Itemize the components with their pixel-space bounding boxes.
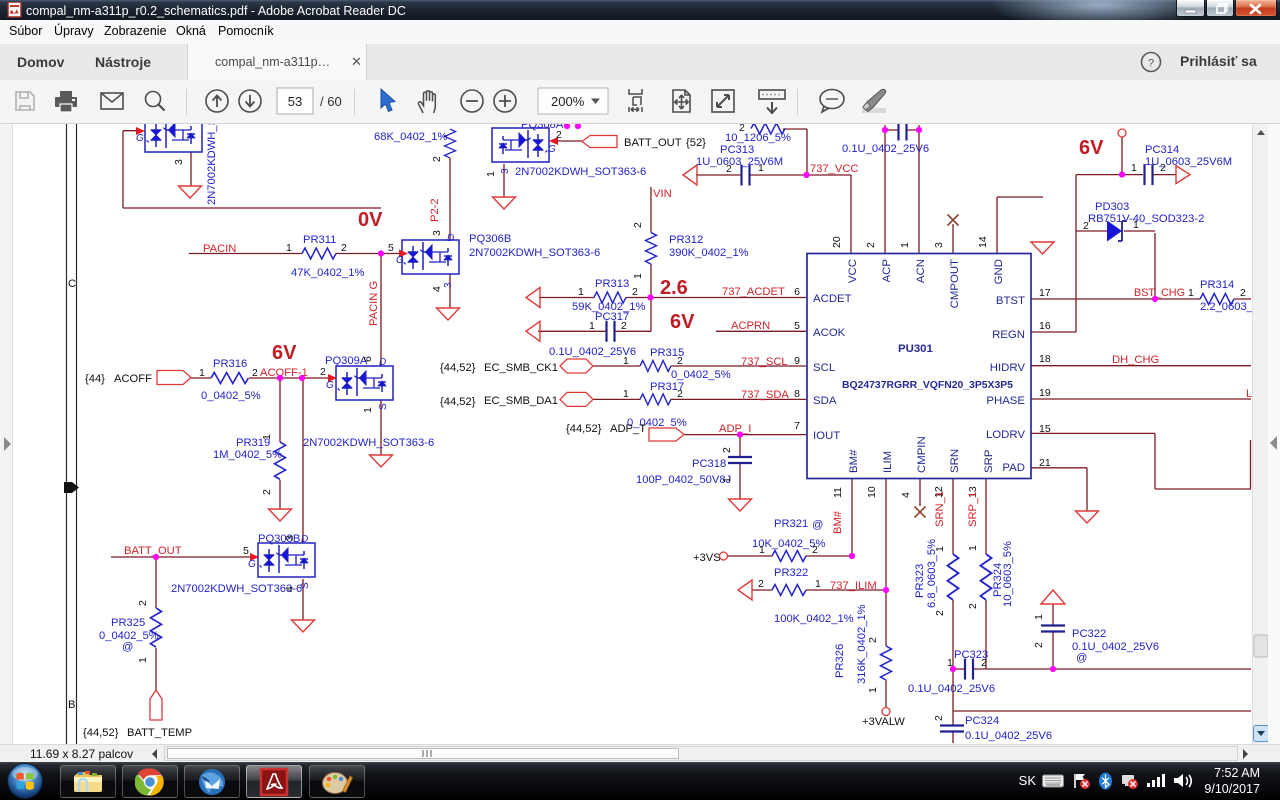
- svg-text:ADP_I: ADP_I: [719, 423, 751, 435]
- op-amp/IC U PU301 BQ24737: [807, 254, 1031, 479]
- svg-text:SRP: SRP: [983, 450, 995, 473]
- svg-text:16: 16: [1039, 320, 1051, 332]
- svg-text:19: 19: [1039, 387, 1051, 399]
- svg-text:REGN: REGN: [992, 329, 1025, 341]
- svg-text:2N7002KDWH_SOT363-6: 2N7002KDWH_SOT363-6: [171, 583, 302, 595]
- svg-text:2: 2: [252, 367, 258, 379]
- resistor PR325: [151, 608, 162, 647]
- svg-text:2: 2: [1083, 220, 1089, 232]
- wire net ADP_I: [684, 435, 806, 457]
- svg-text:ADP_T: ADP_T: [610, 423, 646, 435]
- svg-text:CMPOUT: CMPOUT: [949, 259, 961, 308]
- svg-text:D: D: [379, 357, 386, 368]
- svg-text:1: 1: [934, 546, 946, 552]
- svg-text:2: 2: [739, 124, 745, 134]
- svg-text:3: 3: [173, 159, 185, 165]
- svg-text:1U_0603_25V6M: 1U_0603_25V6M: [696, 156, 783, 168]
- capacitor PC317: [607, 321, 615, 342]
- wire net BATT_OUT: [111, 556, 252, 558]
- svg-text:1: 1: [1188, 287, 1194, 299]
- capacitor PC313: [683, 165, 697, 185]
- capacitor PC324: [940, 726, 964, 732]
- frame arrow marker: [64, 482, 79, 493]
- svg-text:47K_0402_1%: 47K_0402_1%: [291, 267, 364, 279]
- wire net ACN top: [906, 125, 920, 254]
- svg-text:PR314: PR314: [1200, 279, 1234, 291]
- wire net BST_CHG: [1031, 298, 1251, 300]
- capacitor top (0.1U): [899, 120, 907, 141]
- svg-text:3: 3: [443, 282, 454, 288]
- resistor 10_1206_5% (partial at top): [751, 123, 785, 134]
- svg-text:2: 2: [677, 388, 683, 400]
- svg-text:2: 2: [1033, 642, 1045, 648]
- svg-text:RB751V-40_SOD323-2: RB751V-40_SOD323-2: [1088, 213, 1204, 225]
- schematic frame border lines: [67, 124, 77, 744]
- svg-text:SCL: SCL: [813, 362, 835, 374]
- svg-text:2.6: 2.6: [660, 277, 688, 299]
- svg-text:2: 2: [1160, 162, 1166, 174]
- svg-text:1: 1: [721, 477, 733, 483]
- svg-text:1: 1: [199, 367, 205, 379]
- svg-text:PD303: PD303: [1095, 201, 1129, 213]
- junction ILIM: [883, 587, 889, 593]
- svg-text:C: C: [68, 278, 76, 290]
- svg-text:BST_CHG: BST_CHG: [1134, 287, 1185, 299]
- svg-text:1: 1: [261, 434, 273, 440]
- svg-text:2: 2: [621, 320, 627, 332]
- svg-text:1: 1: [137, 657, 149, 663]
- wire net ACPRN: [538, 330, 806, 332]
- svg-text:6V: 6V: [1079, 137, 1104, 159]
- svg-text:2: 2: [933, 715, 945, 721]
- svg-text:PAD: PAD: [1002, 462, 1025, 474]
- svg-text:10_0603_5%: 10_0603_5%: [1002, 541, 1014, 607]
- wire PR326 to +3VALW: [885, 680, 887, 708]
- svg-text:?: ?: [1148, 58, 1154, 70]
- wire PQ306A source to ground: [190, 152, 192, 186]
- svg-text:11: 11: [832, 487, 844, 498]
- svg-text:200%: 200%: [551, 94, 585, 109]
- svg-text:P2-2: P2-2: [429, 198, 441, 222]
- svg-text:2: 2: [1240, 287, 1246, 299]
- wire +3VS to PR321: [727, 555, 772, 557]
- svg-text:2: 2: [758, 578, 764, 590]
- wire net PACIN: [189, 253, 399, 255]
- capacitor PC322: [1041, 626, 1065, 632]
- resistor PR316: [211, 373, 248, 384]
- wire PC322 leads: [1052, 604, 1054, 669]
- svg-text:0_0402_5%: 0_0402_5%: [671, 369, 731, 381]
- port arrow (PR313): [526, 288, 540, 308]
- svg-text:BQ24737RGRR_VQFN20_3P5X3P5: BQ24737RGRR_VQFN20_3P5X3P5: [842, 380, 1013, 391]
- svg-text:PHASE: PHASE: [986, 395, 1025, 407]
- svg-text:G: G: [248, 559, 256, 570]
- svg-text:@: @: [122, 641, 133, 653]
- wire PR319 to ground: [279, 480, 281, 509]
- svg-text:@: @: [812, 519, 823, 531]
- ground (PQ309A): [370, 455, 393, 467]
- wire net ACOFF: [191, 377, 211, 379]
- capacitor PC314: [1145, 164, 1153, 185]
- svg-text:ACDET: ACDET: [813, 293, 852, 305]
- svg-text:10_1206_5%: 10_1206_5%: [725, 132, 791, 144]
- svg-text:ACN: ACN: [915, 259, 927, 283]
- svg-text:IOUT: IOUT: [813, 430, 840, 442]
- wire net LODRV: [1031, 433, 1251, 489]
- svg-text:8: 8: [794, 388, 800, 400]
- svg-text:ACOFF: ACOFF: [114, 373, 152, 385]
- svg-text:1: 1: [815, 578, 821, 590]
- svg-text:53: 53: [288, 94, 302, 109]
- svg-text:SDA: SDA: [813, 395, 837, 407]
- svg-text:ACP: ACP: [881, 259, 893, 282]
- wire PR325 to BATT_TEMP: [155, 648, 157, 690]
- power arrow (PC322): [1041, 590, 1065, 604]
- svg-text:B: B: [68, 699, 75, 711]
- svg-text:0.1U_0402_25V6: 0.1U_0402_25V6: [908, 683, 995, 695]
- wire net 737_VCC: [696, 129, 851, 254]
- wire ACOFF-1 to PQ308B drain: [302, 378, 304, 543]
- svg-text:737_ACDET: 737_ACDET: [722, 286, 785, 298]
- wire net ACOFF-1: [249, 377, 333, 379]
- svg-text:18: 18: [1039, 353, 1051, 365]
- junctions ACOFF-1: [277, 375, 283, 381]
- svg-text:G: G: [548, 144, 556, 155]
- svg-text:0.1U_0402_25V6: 0.1U_0402_25V6: [965, 730, 1052, 742]
- transistor PQ306A: [145, 118, 202, 152]
- ground (PR319): [269, 509, 292, 521]
- svg-text:21: 21: [1039, 457, 1051, 469]
- svg-text:BTST: BTST: [996, 295, 1025, 307]
- wire net P2-2: [449, 158, 451, 240]
- svg-text:4: 4: [284, 586, 296, 592]
- svg-text:1: 1: [578, 286, 584, 298]
- svg-text:{44,52}: {44,52}: [566, 423, 602, 435]
- svg-text:2: 2: [261, 489, 273, 495]
- wire net PHASE: [1031, 398, 1251, 400]
- svg-text:DH_CHG: DH_CHG: [1112, 354, 1159, 366]
- svg-text:{44,52}: {44,52}: [83, 727, 119, 739]
- power node circle: [1118, 129, 1126, 137]
- svg-text:1: 1: [362, 407, 374, 413]
- wire net 6V/REGN: [1031, 137, 1176, 332]
- svg-text:1M_0402_5%: 1M_0402_5%: [213, 449, 282, 461]
- wire PAD to ground: [1031, 468, 1087, 511]
- ground (PQ306A source): [179, 186, 202, 198]
- svg-text:1U_0603_25V6M: 1U_0603_25V6M: [1145, 156, 1232, 168]
- capacitor PC323: [965, 659, 973, 680]
- svg-text:PR326: PR326: [834, 644, 846, 678]
- svg-text:{44,52}: {44,52}: [440, 396, 476, 408]
- svg-text:0V: 0V: [358, 209, 383, 231]
- svg-text:2: 2: [632, 222, 644, 228]
- svg-text:737_VCC: 737_VCC: [810, 163, 859, 175]
- svg-text:4: 4: [900, 492, 912, 498]
- svg-text:/ 60: / 60: [320, 94, 342, 109]
- wire net 737_SCL: [593, 365, 806, 367]
- svg-text:6V: 6V: [670, 311, 695, 333]
- svg-text:100K_0402_1%: 100K_0402_1%: [774, 613, 854, 625]
- svg-text:VCC: VCC: [847, 259, 859, 283]
- svg-text:2N7002KDWH_SOT363-6: 2N7002KDWH_SOT363-6: [303, 437, 434, 449]
- svg-text:2: 2: [726, 163, 732, 175]
- svg-text:ACOK: ACOK: [813, 327, 846, 339]
- svg-text:ACPRN: ACPRN: [731, 320, 770, 332]
- no-connect X pin3: [948, 215, 959, 226]
- svg-text:2: 2: [812, 544, 818, 556]
- svg-text:1: 1: [623, 355, 629, 367]
- svg-text:PC313: PC313: [720, 144, 754, 156]
- port arrow (PC317): [526, 321, 540, 341]
- junction 737_VCC: [803, 172, 809, 178]
- svg-text:PR325: PR325: [111, 617, 145, 629]
- svg-text:@: @: [1076, 652, 1087, 664]
- svg-text:3: 3: [284, 535, 296, 541]
- svg-text:PACIN: PACIN: [203, 243, 236, 255]
- wire CMPOUT stub: [952, 224, 954, 254]
- ground (PQ308A): [493, 197, 516, 209]
- svg-text:PACIN G: PACIN G: [368, 281, 380, 326]
- wire bottom bus wire: [953, 668, 1251, 670]
- wire net 0V loop: [123, 131, 381, 208]
- junction BST_CHG: [1152, 296, 1158, 302]
- svg-text:SRP_1: SRP_1: [967, 492, 979, 527]
- transistor PQ308B: [258, 543, 315, 577]
- wire bottom bus wire 2: [953, 710, 1251, 712]
- svg-text:PR316: PR316: [213, 358, 247, 370]
- svg-text:1: 1: [485, 171, 497, 177]
- svg-text:ILIM: ILIM: [882, 451, 894, 473]
- wire net 737_ACDET: [539, 297, 806, 299]
- svg-text:1: 1: [589, 320, 595, 332]
- wire net VIN: [650, 187, 652, 233]
- svg-text:PR323: PR323: [914, 564, 926, 598]
- svg-text:20: 20: [831, 236, 843, 248]
- junction PR321/BM#: [849, 553, 855, 559]
- svg-text:+3VS: +3VS: [693, 552, 721, 564]
- svg-text:737_SDA: 737_SDA: [741, 389, 789, 401]
- wire PC318 to ground: [739, 463, 741, 499]
- svg-text:1: 1: [759, 544, 765, 556]
- svg-text:S: S: [378, 403, 389, 410]
- junction BATT_OUT: [153, 554, 159, 560]
- svg-text:BATT_OUT: BATT_OUT: [124, 545, 182, 557]
- svg-text:6: 6: [794, 286, 800, 298]
- svg-text:2: 2: [981, 657, 987, 669]
- resistor PR308 68K (partial at top): [445, 129, 456, 158]
- svg-text:14: 14: [977, 236, 989, 248]
- svg-text:6V: 6V: [272, 342, 297, 364]
- wire PR312 to ACDET junction: [650, 264, 652, 331]
- wire PR322 stub: [752, 589, 772, 591]
- wire PQ308A gate: [558, 140, 582, 142]
- svg-text:2: 2: [320, 366, 326, 378]
- svg-text:BATT_TEMP: BATT_TEMP: [127, 727, 192, 739]
- svg-text:2: 2: [137, 600, 149, 606]
- svg-text:68K_0402_1%: 68K_0402_1%: [374, 131, 447, 143]
- svg-text:15: 15: [1039, 423, 1051, 435]
- svg-text:390K_0402_1%: 390K_0402_1%: [669, 247, 749, 259]
- svg-text:17: 17: [1039, 287, 1051, 299]
- wire net SRN_1: [952, 479, 954, 743]
- svg-text:{52}: {52}: [686, 137, 706, 149]
- svg-text:PU301: PU301: [898, 343, 933, 355]
- svg-text:6: 6: [362, 356, 374, 362]
- svg-text:1: 1: [899, 242, 911, 248]
- resistor PR317: [640, 394, 671, 405]
- resistor PR326: [881, 646, 892, 680]
- svg-text:D: D: [301, 534, 308, 545]
- svg-text:2: 2: [867, 637, 879, 643]
- svg-text:2N7002KDWH_SOT363-6: 2N7002KDWH_SOT363-6: [469, 247, 600, 259]
- wire BATT_OUT to PR325: [155, 557, 157, 608]
- svg-text:2: 2: [865, 242, 877, 248]
- svg-text:BM#: BM#: [848, 449, 860, 473]
- svg-text:7: 7: [794, 420, 800, 432]
- svg-text:GND: GND: [993, 259, 1005, 284]
- port BATT_TEMP: [150, 690, 162, 720]
- ground (GND pin14): [1031, 242, 1054, 254]
- svg-text:LODRV: LODRV: [986, 429, 1025, 441]
- wire PQ308B source to ground: [302, 579, 304, 620]
- svg-text:2N7002KDWH_SOT363-6: 2N7002KDWH_SOT363-6: [515, 166, 646, 178]
- svg-text:0_0402_5%: 0_0402_5%: [201, 390, 261, 402]
- svg-text:316K_0402_1%: 316K_0402_1%: [856, 604, 868, 684]
- svg-text:G: G: [396, 255, 404, 266]
- resistor PR314: [1200, 294, 1234, 305]
- svg-text:BM#: BM#: [832, 510, 844, 534]
- wire net PACIN_G: [380, 254, 382, 367]
- svg-text:G: G: [326, 380, 334, 391]
- ground (PC318): [729, 499, 752, 511]
- svg-text:1: 1: [1133, 219, 1139, 231]
- svg-text:1: 1: [1033, 614, 1045, 620]
- svg-text:5: 5: [388, 242, 394, 254]
- svg-text:+3VALW: +3VALW: [862, 716, 905, 728]
- svg-text:2: 2: [632, 286, 638, 298]
- svg-text:SRN: SRN: [949, 449, 961, 473]
- junction ADP_I: [737, 432, 743, 438]
- svg-text:10: 10: [866, 486, 878, 498]
- transistor PQ306B: [402, 240, 459, 274]
- svg-text:5: 5: [794, 320, 800, 332]
- svg-text:1: 1: [867, 687, 879, 693]
- svg-text:1: 1: [623, 388, 629, 400]
- wire GND pin14 jog: [997, 197, 1043, 254]
- svg-text:737_SCL: 737_SCL: [741, 356, 788, 368]
- wire PQ309A source to ground: [380, 400, 382, 455]
- svg-text:PQ306B: PQ306B: [469, 233, 511, 245]
- resistor PR312: [646, 233, 657, 265]
- wire PQ306B source to ground: [449, 274, 451, 308]
- svg-text:2N7002KDWH_S: 2N7002KDWH_S: [206, 124, 218, 205]
- port BATT_OUT (top): [582, 136, 617, 148]
- svg-text:PR313: PR313: [595, 278, 629, 290]
- svg-text:S: S: [300, 582, 311, 589]
- svg-text:1: 1: [632, 273, 644, 279]
- svg-text:D: D: [447, 233, 454, 244]
- svg-text:{44,52}: {44,52}: [440, 362, 476, 374]
- junctions bottom wire: [950, 666, 956, 672]
- wire CMPIN stub: [919, 479, 921, 506]
- svg-text:100P_0402_50V8J: 100P_0402_50V8J: [636, 474, 731, 486]
- wire net 737_ILIM: [806, 479, 886, 646]
- junction 2.6: [647, 294, 653, 300]
- svg-text:1: 1: [967, 545, 979, 551]
- junction 6V: [1119, 172, 1125, 178]
- resistor PR313: [594, 292, 626, 303]
- no-connect X pin4: [915, 507, 926, 518]
- wire ACOFF-1 to PR319: [279, 378, 281, 442]
- svg-text:VIN: VIN: [653, 188, 672, 200]
- ground (PQ308B): [292, 620, 315, 632]
- svg-text:2: 2: [967, 603, 979, 609]
- wire net BM#: [806, 479, 852, 556]
- svg-text:2: 2: [677, 355, 683, 367]
- svg-text:1: 1: [1131, 162, 1137, 174]
- resistor PR323: [948, 554, 959, 600]
- svg-text:SRN_1: SRN_1: [934, 491, 946, 527]
- svg-text:2.2_0603_5: 2.2_0603_5: [1200, 301, 1252, 313]
- transistor PQ308A: [492, 128, 549, 162]
- svg-text:1: 1: [286, 242, 292, 254]
- svg-text:737_ILIM: 737_ILIM: [830, 580, 877, 592]
- svg-text:PC318: PC318: [692, 458, 726, 470]
- svg-text:9: 9: [794, 355, 800, 367]
- resistor PR322: [738, 580, 752, 600]
- svg-text:PR312: PR312: [669, 234, 703, 246]
- svg-text:BATT_OUT: BATT_OUT: [624, 137, 682, 149]
- svg-text:PR322: PR322: [774, 567, 808, 579]
- svg-text:3: 3: [933, 242, 945, 248]
- svg-text:2: 2: [341, 242, 347, 254]
- svg-text:2: 2: [431, 156, 443, 162]
- svg-text:CMPIN: CMPIN: [916, 436, 928, 473]
- svg-text:2: 2: [721, 447, 733, 453]
- svg-text:G: G: [136, 133, 144, 144]
- svg-text:4: 4: [431, 286, 443, 292]
- svg-text:HIDRV: HIDRV: [990, 362, 1026, 374]
- transistor PQ309A: [336, 366, 393, 400]
- resistor PR311: [302, 248, 336, 259]
- svg-text:1: 1: [758, 162, 764, 174]
- ground (PAD): [1076, 511, 1099, 523]
- svg-text:PR311: PR311: [303, 234, 336, 246]
- svg-text:3: 3: [500, 168, 511, 174]
- wire net 737_SDA: [593, 398, 806, 400]
- svg-text:3: 3: [431, 230, 443, 236]
- svg-text:PC324: PC324: [965, 715, 999, 727]
- junction PACIN/PR311: [378, 250, 384, 256]
- wire PD303 net: [1076, 231, 1155, 299]
- svg-text:PC314: PC314: [1145, 144, 1179, 156]
- svg-text:PR321: PR321: [774, 518, 808, 530]
- svg-text:EC_SMB_CK1: EC_SMB_CK1: [484, 362, 558, 374]
- wire net ACP top: [885, 125, 900, 254]
- wire net DH_CHG: [1031, 365, 1251, 367]
- svg-text:0.1U_0402_25V6: 0.1U_0402_25V6: [842, 143, 929, 155]
- svg-text:5: 5: [243, 545, 249, 557]
- ground (PQ306B): [437, 308, 460, 320]
- svg-text:2: 2: [934, 610, 946, 616]
- resistor PR324: [981, 554, 992, 600]
- capacitor PC318: [728, 457, 752, 463]
- svg-text:1: 1: [947, 657, 953, 669]
- resistor PR315: [640, 361, 671, 372]
- resistor PR319: [275, 442, 286, 479]
- wire net SRP_1: [985, 479, 987, 669]
- junction dots top cap: [882, 127, 888, 133]
